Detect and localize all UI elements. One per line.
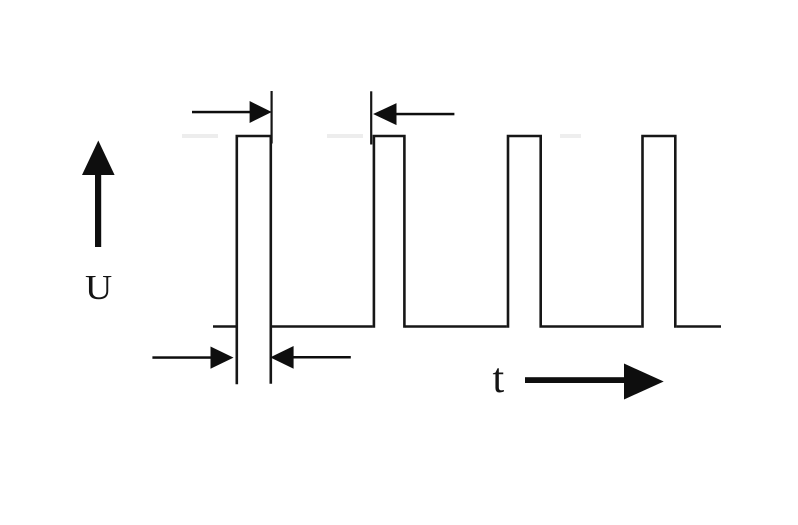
wire baseline segment 3-4 <box>542 325 641 328</box>
dimension arrow top-left (points right at tick) <box>192 101 272 123</box>
pulse 3 <box>508 136 541 328</box>
ghost artifact left of pulse 2 <box>327 134 363 138</box>
wire baseline segment left <box>213 325 236 328</box>
dimension arrow top-right (points left at tick) <box>373 103 454 125</box>
dimension arrow bottom-left (points right at pulse edge) <box>152 347 233 369</box>
dimension tick at pulse 1 right edge <box>271 91 273 144</box>
wire baseline segment 2-3 <box>405 325 506 328</box>
wire baseline segment 1-2 <box>271 325 373 328</box>
pulse 2 <box>374 136 405 328</box>
ghost artifact right of pulse 3 <box>560 134 581 138</box>
pulse 1 <box>237 136 271 384</box>
dimension tick at pulse 2 left edge <box>370 91 372 144</box>
svg-text:U: U <box>85 269 112 307</box>
t axis arrow <box>525 364 664 400</box>
pulse 4 <box>643 136 676 328</box>
dimension arrow bottom-right (points left at pulse edge) <box>270 346 351 369</box>
wire baseline segment right <box>677 325 721 328</box>
U axis arrow <box>82 141 115 248</box>
ghost artifact left of pulse 1 <box>182 134 218 138</box>
waveform pulse train <box>213 136 721 384</box>
svg-text:t: t <box>493 356 505 402</box>
